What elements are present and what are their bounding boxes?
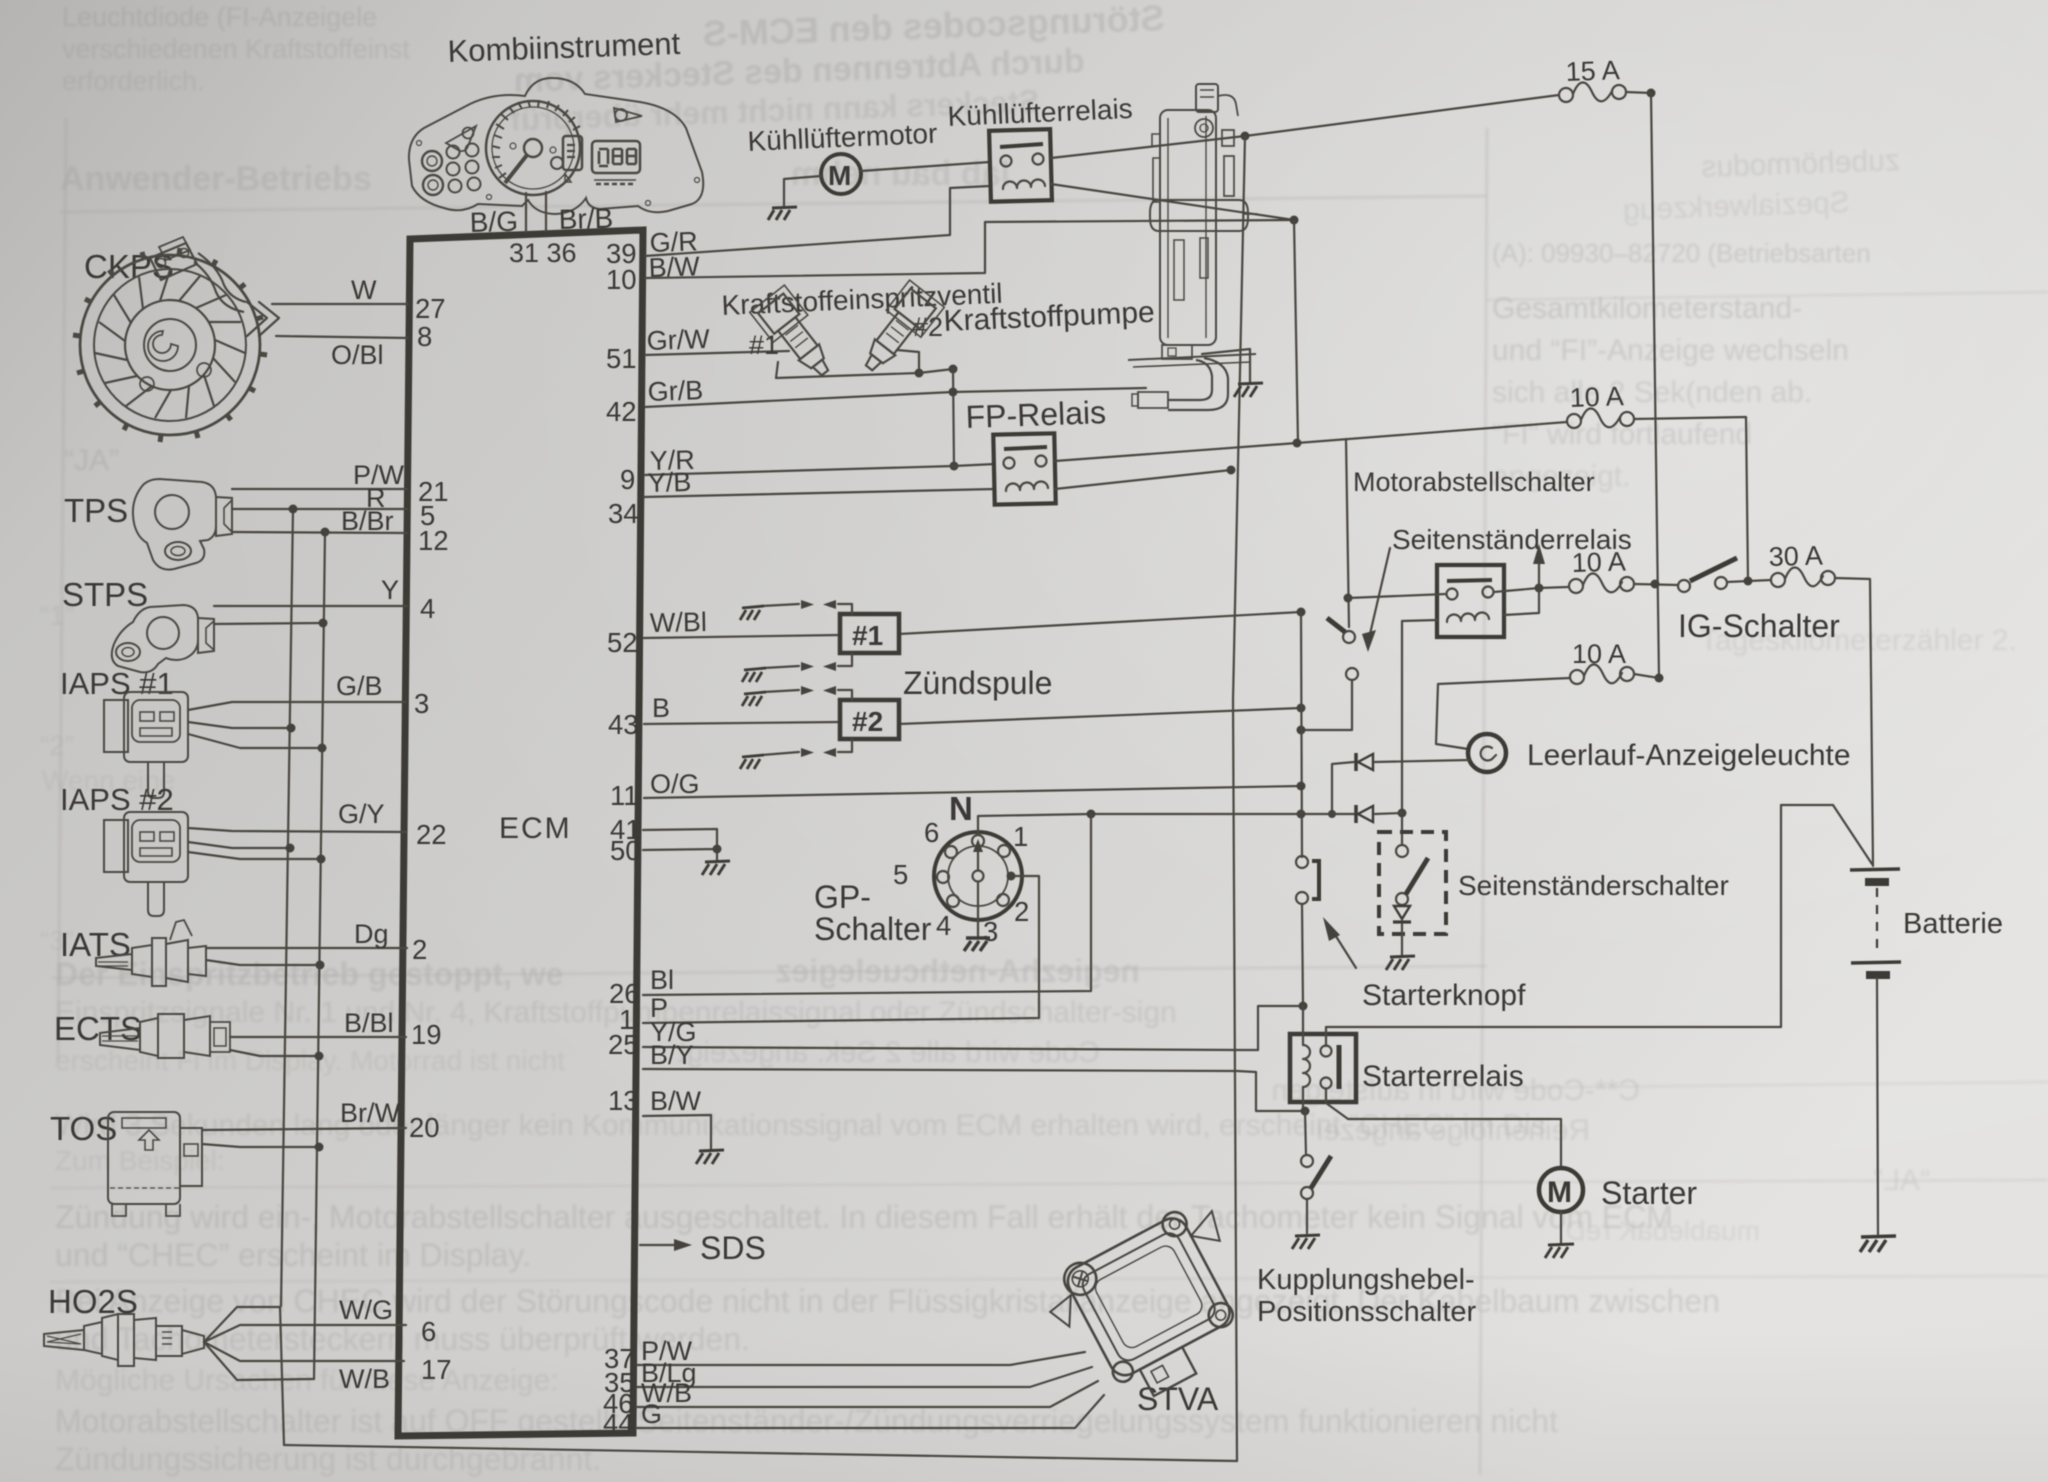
wire IG to 30A bbox=[1727, 580, 1771, 582]
TPS wire B/Br pin 12 bbox=[232, 532, 407, 533]
svg-text:31 36: 31 36 bbox=[509, 238, 577, 268]
svg-text:10 A: 10 A bbox=[1569, 381, 1624, 413]
faint rule right col bbox=[1487, 292, 2048, 300]
IATS sensor drawing bbox=[60, 919, 407, 986]
node starter coil feed bbox=[1299, 1002, 1308, 1011]
STVA actuator drawing bbox=[1036, 1195, 1276, 1420]
injector 2 return bbox=[897, 350, 919, 373]
svg-text:Br/B: Br/B bbox=[558, 203, 613, 235]
HO2S wire W/G pin 6 bbox=[204, 1325, 406, 1342]
HO2S fan wire to heater bus bbox=[204, 1307, 284, 1445]
ground side stand bbox=[1386, 956, 1415, 970]
svg-text:#2: #2 bbox=[852, 706, 883, 737]
node TPS B/Br bus bbox=[321, 528, 330, 537]
node B/W coil join bbox=[1290, 216, 1299, 225]
node injector common bbox=[915, 369, 924, 378]
svg-text:Batterie: Batterie bbox=[1903, 908, 2003, 940]
node relay out bbox=[1535, 584, 1544, 593]
svg-text:G/B: G/B bbox=[336, 671, 383, 701]
svg-text:Dg: Dg bbox=[354, 919, 389, 949]
STPS wire to ground bus bbox=[214, 623, 323, 624]
starter motor M2 bbox=[1539, 1168, 1583, 1212]
sensor ground bus B/Br bbox=[314, 532, 325, 1379]
injector common to supply node bbox=[919, 369, 953, 373]
faint table rule left vertical bbox=[58, 118, 66, 1060]
svg-text:Zündung wird ein-, Motorabstel: Zündung wird ein-, Motorabstellschalter … bbox=[55, 1199, 1673, 1235]
wire B/W pin 13 to ground bbox=[643, 1115, 711, 1149]
node coil2 kill bbox=[1297, 704, 1306, 713]
svg-text:W/Bl: W/Bl bbox=[650, 607, 708, 638]
TOS wire Br/W pin 20 bbox=[202, 1128, 406, 1130]
svg-text:FP-Relais: FP-Relais bbox=[965, 394, 1107, 435]
side stand relay K3 box bbox=[1437, 565, 1504, 637]
side stand switch S3 dashed box bbox=[1379, 832, 1446, 955]
wire relay contact left to stop switch node bbox=[1348, 594, 1446, 598]
wire lamp to diode N line bbox=[1375, 760, 1469, 762]
wire coil2 output to kill vertical bbox=[899, 708, 1301, 724]
svg-text:25: 25 bbox=[608, 1029, 639, 1060]
neutral indicator lamp L1 bbox=[1468, 734, 1506, 772]
svg-text:SDS: SDS bbox=[700, 1230, 766, 1266]
svg-text:“AL”: “AL” bbox=[1873, 1164, 1930, 1197]
svg-text:erforderlich.: erforderlich. bbox=[62, 66, 205, 96]
wire fuel pump to ground bbox=[1202, 349, 1250, 382]
wire P/W pin 37 to STVA bbox=[637, 1352, 1085, 1365]
ECM U1 box bbox=[398, 230, 643, 1436]
wire fuse to IG switch bbox=[1634, 584, 1678, 585]
TPS sensor drawing bbox=[64, 460, 407, 570]
sensor supply bus R bbox=[281, 509, 293, 1306]
svg-text:Motorabstellschalter ist auf O: Motorabstellschalter ist auf OFF gestell… bbox=[55, 1403, 1558, 1439]
TOS tip-over sensor drawing bbox=[50, 1098, 406, 1216]
svg-text:22: 22 bbox=[416, 819, 447, 850]
node Y/R tap bbox=[950, 462, 959, 471]
wire W/Bl pin 52 to coil 1 bbox=[644, 635, 840, 638]
svg-text:B/G: B/G bbox=[469, 206, 518, 238]
wire FP coil to supply vertical bbox=[1055, 470, 1231, 489]
svg-text:27: 27 bbox=[415, 293, 446, 324]
ground battery bbox=[1860, 1236, 1896, 1252]
svg-text:STPS: STPS bbox=[62, 576, 148, 613]
TPS wire P/W pin 21 bbox=[232, 488, 407, 490]
svg-text:Leuchtdiode (FI-Anzeigele: Leuchtdiode (FI-Anzeigele bbox=[62, 2, 377, 32]
wire G pin 44 to STVA bbox=[636, 1395, 1104, 1428]
engine stop switch S2 bbox=[1327, 618, 1358, 680]
faint table rule horizontal bottom bbox=[50, 1276, 2048, 1282]
wire stop switch to kill node bbox=[1301, 680, 1352, 730]
ground clutch switch bbox=[1292, 1235, 1320, 1249]
wire P pin 1 to GP terminal 2 bbox=[643, 876, 1039, 1023]
node injector supply bbox=[949, 365, 958, 374]
svg-text:G/Y: G/Y bbox=[338, 799, 385, 829]
svg-text:B/W: B/W bbox=[648, 251, 701, 283]
faint table rule horizontal mid bbox=[52, 966, 1487, 978]
svg-text:Y/B: Y/B bbox=[647, 467, 691, 498]
svg-text:M: M bbox=[828, 160, 851, 191]
wire Bl pin 26 to N line bbox=[643, 814, 1091, 995]
injector 2 drawing bbox=[852, 280, 945, 381]
svg-text:17: 17 bbox=[421, 1354, 452, 1385]
svg-text:O/Bl: O/Bl bbox=[331, 340, 384, 370]
svg-text:6: 6 bbox=[924, 817, 939, 848]
wire relay contact top to battery bbox=[1326, 805, 1872, 1046]
wire B/W pin 10 jog to supply bbox=[645, 220, 1294, 278]
svg-text:Gesamtkilometerstand-: Gesamtkilometerstand- bbox=[1492, 292, 1802, 325]
svg-text:IG-Schalter: IG-Schalter bbox=[1678, 608, 1840, 644]
wire relay coil left to side stand switch bbox=[1402, 620, 1437, 845]
STPS sensor drawing bbox=[62, 575, 407, 672]
svg-text:4: 4 bbox=[936, 910, 951, 941]
ECTS sensor drawing bbox=[54, 1008, 406, 1061]
node after 15A bbox=[1647, 89, 1656, 98]
node supply vertical top bbox=[1241, 132, 1250, 141]
node ECTS gnd bbox=[315, 1052, 324, 1061]
svg-text:verschiedenen Kraftstoffeinst: verschiedenen Kraftstoffeinst bbox=[62, 34, 410, 64]
node coil bottom bbox=[1301, 1107, 1310, 1116]
wire Y/G pin 25 to starter button node bbox=[643, 1006, 1303, 1050]
svg-text:Motorabstellschalter: Motorabstellschalter bbox=[1353, 467, 1595, 497]
svg-text:W/G: W/G bbox=[339, 1295, 393, 1325]
svg-text:GP-: GP- bbox=[814, 879, 871, 915]
cluster stem wire pair bbox=[526, 192, 546, 232]
svg-text:M: M bbox=[1547, 1176, 1572, 1209]
wire W/B pin 46 to STVA bbox=[636, 1381, 1098, 1407]
IAPS2 wire to ground bus bbox=[188, 852, 321, 859]
Kupplungshebel switch S6 bbox=[1301, 1155, 1331, 1233]
GP gear position switch S4 bbox=[893, 790, 1029, 951]
wire button to starter relay node bbox=[1302, 904, 1303, 1006]
svg-text:3: 3 bbox=[414, 688, 429, 719]
svg-text:und “FI”-Anzeige wechseln: und “FI”-Anzeige wechseln bbox=[1492, 334, 1849, 367]
faint table rule horizontal top bbox=[60, 196, 1487, 212]
node IG feed bbox=[1651, 580, 1660, 589]
CKPS connector chevrons bbox=[247, 302, 279, 336]
HO2S wire to ground bus bbox=[204, 1342, 314, 1380]
IATS wire Dg pin 2 bbox=[206, 947, 407, 949]
wire Y/R pin 9 to FP relay contact bbox=[644, 464, 995, 475]
vertical injector supply bbox=[953, 369, 954, 466]
svg-text:Positionsschalter: Positionsschalter bbox=[1257, 1296, 1477, 1328]
svg-text:“2”: “2” bbox=[40, 730, 74, 761]
node IAPS2 R bbox=[286, 844, 295, 853]
coil1 secondary top: ground and spark gap bbox=[740, 600, 852, 620]
fan output long vertical to heater rail bbox=[1233, 136, 1245, 1461]
TPS wire R pin 5 bbox=[232, 508, 407, 510]
svg-text:Zum Beispiel:: Zum Beispiel: bbox=[55, 1145, 225, 1176]
svg-text:#1: #1 bbox=[852, 620, 883, 651]
fan relay K1 box bbox=[989, 129, 1052, 202]
HO2S oxygen sensor drawing bbox=[44, 1283, 406, 1445]
SDS arrow bbox=[640, 1244, 676, 1246]
ignition coil #2 box bbox=[840, 700, 899, 739]
vertical 15A to IG row bbox=[1651, 93, 1659, 678]
svg-text:52: 52 bbox=[607, 627, 638, 658]
node TOS gnd bbox=[315, 1143, 324, 1152]
coil1 secondary bottom bbox=[742, 653, 852, 682]
wire B/Lg pin 35 to STVA bbox=[637, 1367, 1092, 1387]
wire fan relay contact to 15A fuse bbox=[1051, 95, 1559, 158]
svg-text:Starterknopf: Starterknopf bbox=[1362, 979, 1526, 1012]
IAPS2 wire G/Y pin 22 bbox=[188, 828, 406, 832]
wire Gr/B pin 42 to fuel pump bbox=[645, 388, 1146, 407]
svg-text:Br/W: Br/W bbox=[340, 1098, 401, 1128]
svg-text:und “CHEC” erscheint im Displa: und “CHEC” erscheint im Display. bbox=[55, 1237, 531, 1273]
10 A fuse F2 top bbox=[1567, 381, 1634, 428]
wire O/G pin 11 to kill vertical bbox=[644, 786, 1301, 798]
30 A fuse F4 bbox=[1768, 541, 1835, 587]
svg-text:sich alle 2 Sek(nden ab.: sich alle 2 Sek(nden ab. bbox=[1492, 376, 1812, 409]
coil2 secondary top bbox=[742, 686, 852, 706]
node kill/diode bbox=[1297, 810, 1306, 819]
svg-text:Schalter: Schalter bbox=[814, 911, 932, 947]
STPS wire Y pin 4 bbox=[214, 605, 407, 607]
15 A fuse F1 bbox=[1559, 55, 1626, 102]
pins 41 50 joint ground bbox=[643, 829, 730, 875]
svg-text:W: W bbox=[351, 275, 377, 305]
injector 1 return loop bbox=[776, 362, 919, 378]
wire 10A to IG row corner bbox=[1634, 417, 1748, 581]
faint table rule horizontal lower bbox=[50, 1180, 2048, 1188]
svg-text:Zündspule: Zündspule bbox=[903, 665, 1052, 701]
node IAPS1 R bbox=[287, 724, 296, 733]
instrument cluster drawing bbox=[409, 78, 703, 214]
svg-text:Bl: Bl bbox=[650, 965, 674, 995]
svg-text:15 A: 15 A bbox=[1565, 55, 1620, 87]
svg-text:12: 12 bbox=[418, 525, 449, 556]
fan motor M1 bbox=[821, 154, 861, 194]
svg-text:8: 8 bbox=[417, 321, 432, 352]
wire bottom fuse to lamp bbox=[1436, 678, 1570, 749]
svg-text:“JA”: “JA” bbox=[64, 444, 119, 477]
node O/G kill bbox=[1297, 782, 1306, 791]
node 10A drop join bbox=[1744, 577, 1753, 586]
svg-text:G: G bbox=[641, 1399, 662, 1429]
wire fan motor to relay contact bbox=[861, 162, 990, 171]
node FP supply bbox=[1293, 439, 1302, 448]
node FP coil supply bbox=[1227, 466, 1236, 475]
svg-text:N: N bbox=[949, 790, 973, 827]
wire relay contact right to fuse row bbox=[1494, 587, 1568, 592]
wire O/Bl CKPS to pin 8 bbox=[276, 336, 408, 338]
svg-text:43: 43 bbox=[608, 709, 639, 740]
svg-text:9: 9 bbox=[620, 464, 635, 495]
svg-text:zubehörmodus: zubehörmodus bbox=[1701, 144, 1900, 184]
ignition coil #1 box bbox=[840, 614, 899, 653]
wire 30A to battery bbox=[1835, 578, 1873, 866]
ECTS wire B/Bl pin 19 bbox=[230, 1036, 406, 1038]
CKPS crankshaft position sensor rotor bbox=[73, 237, 279, 442]
svg-text:2: 2 bbox=[1014, 896, 1029, 927]
IAPS #2 sensor drawing bbox=[60, 782, 406, 916]
node diode join on stand wire bbox=[1398, 809, 1407, 818]
svg-text:(A): 09930–82720 (Betriebsarte: (A): 09930–82720 (Betriebsarten bbox=[1492, 238, 1871, 268]
svg-text:Code wird alle 2 Sek. angezeig: Code wird alle 2 Sek. angezeigt bbox=[677, 1036, 1100, 1069]
svg-text:Y: Y bbox=[381, 575, 399, 605]
node Bl tap on N line bbox=[1087, 810, 1096, 819]
wire Gr/W pin 51 to injector 1 bbox=[645, 351, 789, 355]
wire B pin 43 to coil 2 bbox=[644, 722, 840, 724]
svg-text:10 A: 10 A bbox=[1571, 547, 1626, 578]
arrow to stop switch bbox=[1370, 548, 1390, 634]
wire relay coil right to out node bbox=[1504, 588, 1539, 615]
battery B1 bbox=[1850, 869, 1901, 975]
Starterknopf button S5 bbox=[1296, 856, 1319, 904]
node bottom fuse feed bbox=[1655, 674, 1664, 683]
svg-text:ECM: ECM bbox=[499, 812, 572, 845]
lower interlock wire with diode bbox=[1301, 813, 1356, 815]
svg-text:Starterrelais: Starterrelais bbox=[1362, 1060, 1524, 1093]
svg-text:1: 1 bbox=[1013, 821, 1028, 852]
node IATS gnd bbox=[316, 961, 325, 970]
wire FP contact to 10A fuse row bbox=[1055, 422, 1567, 461]
svg-text:Kupplungshebel-: Kupplungshebel- bbox=[1257, 1264, 1475, 1296]
svg-text:2: 2 bbox=[412, 934, 427, 965]
wire starter to ground bbox=[1560, 1212, 1562, 1243]
IATS wire to ground bus bbox=[206, 960, 320, 965]
svg-text:B/W: B/W bbox=[650, 1086, 702, 1116]
svg-text:11: 11 bbox=[610, 780, 639, 811]
TOS wire to ground bus bbox=[202, 1144, 319, 1147]
svg-text:Leerlauf-Anzeigeleuchte: Leerlauf-Anzeigeleuchte bbox=[1527, 739, 1851, 772]
wire G/R pin 39 to fan relay coil bbox=[645, 186, 990, 256]
ground starter bbox=[1545, 1244, 1574, 1258]
svg-text:6: 6 bbox=[421, 1316, 436, 1347]
svg-text:B/Bl: B/Bl bbox=[344, 1008, 394, 1038]
svg-text:4: 4 bbox=[420, 593, 435, 624]
IAPS1 wire to R bus bbox=[188, 722, 291, 728]
IAPS1 wire G/B pin 3 bbox=[188, 702, 406, 710]
coil2 secondary bottom bbox=[740, 739, 852, 769]
injector 1 drawing bbox=[750, 285, 843, 386]
wire relay to clutch switch bbox=[1305, 1111, 1306, 1155]
node IAPS2 gnd bbox=[317, 855, 326, 864]
IAPS2 wire to R bus bbox=[188, 842, 290, 848]
wire fan motor to ground bbox=[784, 176, 821, 207]
wire B/Y to starter relay coil bbox=[643, 1069, 1305, 1111]
svg-text:19: 19 bbox=[411, 1019, 442, 1050]
svg-text:13: 13 bbox=[608, 1085, 639, 1116]
wire battery minus to ground bbox=[1877, 978, 1878, 1234]
svg-text:44: 44 bbox=[603, 1408, 634, 1439]
node kill bbox=[1297, 726, 1306, 735]
wire coil1 output to kill vertical bbox=[899, 612, 1301, 634]
IAPS1 wire to ground bus bbox=[188, 734, 322, 748]
svg-text:negiezhA-nethcuelegiez: negiezhA-nethcuelegiez bbox=[776, 953, 1141, 989]
svg-text:34: 34 bbox=[608, 498, 639, 529]
supply vertical to FP row bbox=[1294, 220, 1298, 443]
ground pin13 bbox=[696, 1150, 724, 1164]
svg-text:B: B bbox=[652, 693, 670, 723]
faint table rule right column vertical bbox=[1480, 128, 1487, 1475]
bottom heater rail wire bbox=[284, 1445, 1237, 1461]
svg-text:TPS: TPS bbox=[64, 492, 128, 529]
svg-text:W/B: W/B bbox=[339, 1364, 390, 1394]
ground fan motor bbox=[768, 207, 797, 220]
wire relay contact bottom to starter bbox=[1326, 1089, 1561, 1168]
10 A fuse F3 middle bbox=[1569, 547, 1634, 593]
svg-text:51: 51 bbox=[606, 343, 637, 374]
wire N terminal to interlock line bbox=[978, 814, 1301, 835]
HO2S wire W/B pin 17 bbox=[204, 1342, 404, 1361]
svg-text:Gr/B: Gr/B bbox=[647, 375, 704, 407]
svg-text:Anwender-Betriebs: Anwender-Betriebs bbox=[60, 160, 372, 198]
svg-text:50: 50 bbox=[610, 835, 641, 866]
FP relay K2 box bbox=[993, 433, 1055, 504]
wire diode to corner bbox=[1332, 762, 1354, 814]
IG switch S1 bbox=[1678, 558, 1737, 592]
node TPS R bus bbox=[289, 505, 298, 514]
svg-text:IAPS #1: IAPS #1 bbox=[60, 666, 174, 701]
svg-text:B/Y: B/Y bbox=[650, 1040, 694, 1070]
ground fuel pump bbox=[1234, 383, 1263, 397]
node diode join lower bbox=[1328, 810, 1336, 818]
svg-text:Seitenständerschalter: Seitenständerschalter bbox=[1458, 870, 1729, 901]
starter relay K4 box bbox=[1290, 1006, 1356, 1111]
svg-text:Mögliche Ursachen für diese An: Mögliche Ursachen für diese Anzeige: bbox=[55, 1364, 559, 1397]
engine stop switch drop wire bbox=[1346, 439, 1349, 627]
IAPS #1 sensor drawing bbox=[60, 666, 406, 798]
diode D2 side stand bbox=[1356, 805, 1373, 823]
10 A fuse F5 bottom bbox=[1570, 639, 1634, 684]
fuel pump drawing bbox=[1128, 84, 1258, 410]
svg-text:O/G: O/G bbox=[650, 769, 700, 799]
svg-text:20: 20 bbox=[409, 1112, 440, 1143]
wire Y/B pin 34 to FP relay coil bbox=[644, 489, 995, 497]
svg-text:10: 10 bbox=[606, 264, 637, 295]
node side stand relay tap bbox=[1344, 594, 1353, 603]
svg-text:10 A: 10 A bbox=[1572, 639, 1626, 669]
node coil1 kill bbox=[1297, 608, 1306, 617]
svg-text:B/Br: B/Br bbox=[341, 506, 394, 536]
svg-text:5: 5 bbox=[893, 859, 908, 890]
svg-text:3: 3 bbox=[983, 916, 998, 947]
wire W CKPS to pin 27 bbox=[272, 303, 408, 305]
diode D1 neutral bbox=[1356, 753, 1373, 771]
svg-text:Gr/W: Gr/W bbox=[646, 324, 711, 356]
node IAPS1 gnd bbox=[318, 744, 327, 753]
arrow to button bbox=[1332, 930, 1356, 968]
kill vertical wire bbox=[1301, 612, 1302, 857]
node STPS bus bbox=[319, 619, 328, 628]
node Gr/B tap bbox=[949, 388, 958, 397]
up arrow supply marker bbox=[1538, 562, 1540, 588]
svg-text:42: 42 bbox=[606, 396, 637, 427]
svg-text:muablebaK reD: muablebaK reD bbox=[1565, 1215, 1760, 1246]
svg-text:Starter: Starter bbox=[1601, 1175, 1697, 1211]
wire fan relay coil to supply vertical bbox=[1051, 184, 1294, 220]
ECTS wire to ground bus bbox=[230, 1050, 319, 1056]
